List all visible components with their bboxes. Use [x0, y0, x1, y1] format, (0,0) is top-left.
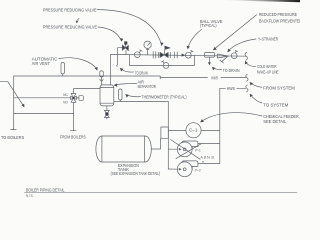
P-2 suction elbow [168, 168, 181, 171]
chemical feeder C-1 [186, 123, 201, 138]
leader from upper PRV label to relief valve [97, 10, 164, 46]
svg-text:P–2: P–2 [195, 168, 201, 172]
separator blowdown valve [104, 106, 109, 119]
suction rail x168.3 [167, 102, 169, 170]
svg-text:SEE DETAIL: SEE DETAIL [263, 119, 287, 124]
label: thermometer (typical) [142, 94, 187, 99]
automatic air vent symbol [100, 71, 104, 85]
label: pressure reducing valve (lower) [43, 25, 97, 30]
svg-text:(SEE EXPANSION TANK DETAIL): (SEE EXPANSION TANK DETAIL) [111, 171, 161, 176]
small tick arrow between labels [76, 19, 79, 24]
label: C-1 [189, 127, 198, 132]
label: HWS [227, 86, 235, 91]
leader from ball valve label to ball valve 1 [187, 30, 202, 50]
label: y-strainer [258, 36, 278, 41]
svg-text:BACKFLOW PREVENTER: BACKFLOW PREVENTER [259, 18, 300, 23]
label: reduced pressure backflow preventer [259, 12, 302, 23]
flow arrow on main line [182, 54, 186, 57]
feeder junction box [161, 127, 168, 138]
ball valve 3 on main line [231, 50, 237, 58]
label: P-2 [195, 168, 201, 172]
leader from backflow preventer label to BFP [213, 15, 257, 50]
P-1 crossed-out marks [171, 140, 202, 160]
reduced pressure backflow preventer body [205, 53, 215, 58]
label: from system [263, 86, 295, 91]
y-strainer [217, 54, 228, 63]
label: air separator [138, 80, 157, 90]
expansion tank connection [152, 138, 161, 149]
svg-text:PRESSURE REDUCING VALVE: PRESSURE REDUCING VALVE [43, 25, 97, 30]
svg-text:NC: NC [63, 93, 68, 97]
svg-text:THERMOMETER (TYPICAL): THERMOMETER (TYPICAL) [142, 94, 187, 99]
leader from air separator label to vessel [114, 84, 137, 87]
ball valve on bypass [161, 61, 169, 69]
label: NO [63, 101, 68, 105]
P-1 suction tee [168, 148, 181, 151]
main cold water make-up line [111, 54, 246, 56]
pump P-1 [177, 141, 198, 157]
supply header line y76 [14, 75, 161, 77]
svg-text:PRESSURE REDUCING VALVE: PRESSURE REDUCING VALVE [43, 8, 97, 13]
pressure gauge [144, 41, 151, 55]
leader for cold water make-up label [245, 61, 256, 67]
air separator vessel [100, 85, 114, 106]
svg-text:TO SYSTEM: TO SYSTEM [263, 103, 288, 108]
label: to boilers [1, 135, 24, 140]
label: expansion tank [111, 163, 161, 176]
svg-text:HWS: HWS [227, 86, 235, 91]
svg-text:HWR: HWR [211, 76, 218, 81]
C-1 discharge line [201, 129, 220, 131]
label: cold water make-up line [257, 64, 279, 74]
label: to system [263, 103, 288, 108]
svg-text:FROM SYSTEM: FROM SYSTEM [263, 86, 295, 91]
drain stub on main line with hook [116, 55, 119, 67]
svg-text:C–1: C–1 [189, 127, 198, 132]
pipe break on make-up line [245, 52, 247, 60]
union flanges left of relief valve [153, 52, 158, 59]
svg-text:REDUCED PRESSURE: REDUCED PRESSURE [259, 12, 297, 17]
chemical feeder C-1 suction line [168, 129, 186, 131]
svg-text:TO BOILERS: TO BOILERS [1, 135, 24, 140]
pump P-2 [177, 161, 198, 177]
svg-text:MAKE–UP LINE: MAKE–UP LINE [257, 69, 279, 74]
thermometer 1 on supply header [61, 63, 64, 77]
svg-text:BOILER PIPING DETAIL: BOILER PIPING DETAIL [26, 187, 65, 192]
label: HWR [211, 76, 218, 81]
leader from y-strainer label to strainer [227, 39, 256, 52]
svg-text:Y–STRAINER: Y–STRAINER [258, 36, 278, 41]
leader for TO DRAIN 1 [120, 68, 134, 72]
label: pressure reducing valve (upper) [43, 8, 97, 13]
svg-text:P–1: P–1 [195, 148, 201, 152]
expansion tank [96, 136, 151, 162]
svg-text:AIR VENT: AIR VENT [32, 61, 50, 66]
pipe break on HWS [246, 85, 248, 92]
svg-text:SEPARATOR: SEPARATOR [138, 84, 157, 89]
svg-text:w.: w. [202, 159, 205, 163]
BFP relief drop to drain [208, 57, 211, 65]
label: P-1 [195, 148, 201, 152]
P-2 discharge line [198, 163, 220, 165]
label: NC [63, 93, 68, 97]
label: chemical feeder see detail [263, 114, 300, 124]
pressure reducing valve PRV assembly [118, 41, 129, 54]
scan artifact: dark band along top-right edge [225, 0, 300, 2]
separator outlet line y101.5 [114, 101, 169, 103]
valve bottom pipe from boilers [70, 102, 76, 130]
label: to drain (BFP) [223, 68, 240, 73]
three-way valve NC/NO [71, 94, 77, 103]
boiler return branch y98 [14, 97, 70, 99]
label: ball valve (typical) [200, 19, 223, 28]
svg-text:(TYPICAL): (TYPICAL) [200, 23, 217, 28]
leader from air vent label [59, 58, 98, 71]
riser from air separator to main line [110, 54, 112, 85]
edge stub and diagonal leader bottom-left [0, 82, 24, 108]
pump discharge rail x220 [219, 88, 221, 163]
svg-text:FROM BOILERS: FROM BOILERS [60, 134, 86, 139]
pipe break on HWR [246, 74, 248, 81]
left manifold vertical [11, 76, 17, 130]
label: automatic air vent [32, 57, 58, 66]
relief valve with flag [160, 46, 170, 58]
HWS line [220, 87, 246, 89]
leader from chemical feeder label to C-1 [200, 113, 262, 123]
ball valve 2 on main line (labeled typical) [185, 50, 193, 58]
label: from boilers [60, 134, 86, 139]
faint addendum note [201, 156, 216, 164]
label: to drain (PRV tee) [135, 71, 148, 76]
valve top pipe to separator [74, 89, 101, 94]
bypass loop under main line [130, 55, 195, 66]
lower branch y113.5 [14, 113, 74, 115]
title: boiler piping detail [26, 187, 65, 197]
valve actuator [76, 96, 83, 101]
leader from TO SYSTEM to HWS break [250, 94, 262, 103]
thermometer 2 [119, 89, 122, 102]
leader from thermometer label [125, 94, 140, 98]
svg-text:TO DRAIN: TO DRAIN [135, 71, 148, 76]
title underline [25, 191, 298, 193]
svg-text:TO DRAIN: TO DRAIN [223, 68, 240, 73]
ball valve 1 on main line [134, 50, 142, 58]
leader for TO DRAIN 2 [212, 67, 222, 71]
HWR jog and line [160, 76, 246, 79]
leader from FROM SYSTEM to HWR break [250, 82, 262, 87]
svg-text:NO: NO [63, 101, 68, 105]
leader from lower PRV label to PRV [98, 27, 123, 42]
svg-text:N.T.S.: N.T.S. [26, 194, 34, 198]
union flanges right of relief valve [170, 52, 177, 58]
P-1 discharge line [198, 143, 220, 145]
